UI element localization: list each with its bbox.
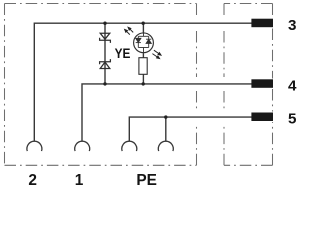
svg-text:2: 2	[28, 172, 37, 188]
svg-text:PE: PE	[136, 172, 157, 188]
svg-text:1: 1	[75, 172, 84, 188]
svg-text:5: 5	[288, 111, 297, 128]
svg-text:YE: YE	[115, 46, 131, 62]
svg-text:4: 4	[288, 77, 297, 94]
svg-text:3: 3	[288, 17, 296, 34]
